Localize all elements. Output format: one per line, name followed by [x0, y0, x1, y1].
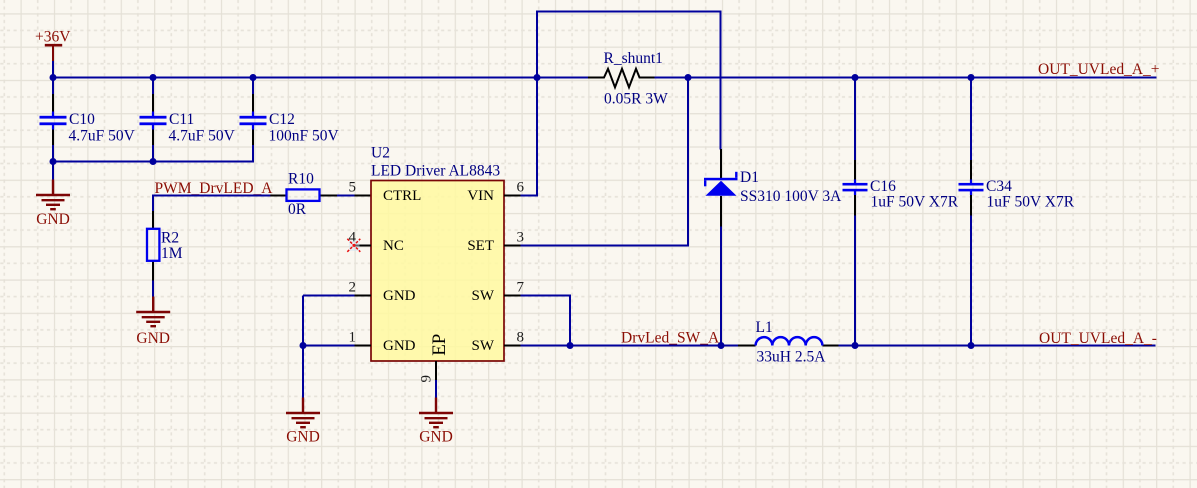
wire VIN pin to riser [521, 195, 539, 197]
wire VIN riser x537 [536, 11, 538, 196]
pin 4 NC [355, 245, 371, 247]
wire pin7 to jog [521, 295, 572, 297]
svg-text:GND: GND [286, 429, 320, 446]
svg-text:SW: SW [472, 338, 495, 354]
svg-text:C10: C10 [69, 111, 95, 128]
junction rail at SET riser [685, 74, 692, 81]
junction bottom bus at C11 [150, 158, 157, 165]
wire top rail right of R_shunt1 [654, 77, 1157, 79]
svg-text:R_shunt1: R_shunt1 [604, 50, 663, 67]
svg-text:D1: D1 [740, 169, 759, 186]
junction rail at C12 [250, 74, 257, 81]
wire C34 to SW line [970, 215, 972, 346]
svg-text:VIN: VIN [467, 188, 494, 204]
junction pins 1-2 riser [300, 342, 307, 349]
svg-text:SS310 100V 3A: SS310 100V 3A [740, 188, 842, 205]
svg-text:C34: C34 [986, 178, 1012, 195]
wire C12 to bottom bus [252, 144, 254, 163]
svg-text:+36V: +36V [35, 29, 71, 46]
svg-text:GND: GND [383, 338, 416, 354]
svg-text:1uF 50V X7R: 1uF 50V X7R [871, 194, 959, 211]
power +36V symbol [45, 45, 62, 62]
ground GND below EP [419, 398, 453, 428]
svg-text:C16: C16 [870, 178, 896, 195]
svg-text:9: 9 [419, 375, 435, 383]
wire C10 to bottom bus [52, 144, 54, 162]
svg-text:C11: C11 [169, 111, 194, 128]
pin 2 GND [303, 295, 356, 297]
wire SW line [521, 345, 739, 347]
wire GND pins riser x303 [302, 296, 304, 399]
svg-text:7: 7 [517, 279, 525, 295]
svg-text:L1: L1 [756, 319, 773, 336]
wire PWM_DrvLED_A horizontal [153, 195, 271, 197]
junction rail at VIN riser [534, 74, 541, 81]
svg-text:U2: U2 [371, 145, 390, 162]
pin 3 SET [504, 245, 522, 247]
junction rail at C34 [968, 74, 975, 81]
svg-text:SW: SW [472, 288, 495, 304]
resistor R_shunt1 [588, 69, 655, 88]
svg-text:R10: R10 [288, 170, 314, 187]
svg-text:5: 5 [349, 179, 357, 195]
wire +36V down to rail [52, 61, 54, 79]
svg-text:8: 8 [517, 329, 525, 345]
svg-text:SET: SET [467, 238, 494, 254]
op-amp U2 body LED Driver AL8843 [371, 181, 504, 362]
pin 1 GND [303, 345, 356, 347]
svg-text:100nF 50V: 100nF 50V [269, 128, 340, 145]
junction pin7-pin8 [567, 342, 574, 349]
svg-text:33uH 2.5A: 33uH 2.5A [757, 348, 827, 365]
wire pin7 jog down [569, 295, 571, 346]
wire C16 to SW line [854, 215, 856, 346]
svg-text:2: 2 [349, 279, 357, 295]
wire R2 to ground [152, 281, 154, 299]
svg-text:GND: GND [419, 429, 453, 446]
junction rail at C16 [852, 74, 859, 81]
junction SW line at C34 [968, 342, 975, 349]
capacitor C10 [40, 94, 67, 145]
ground GND below pins 1-2 [286, 398, 320, 428]
ground GND below C10 [36, 180, 70, 210]
wire C11 to bottom bus [152, 144, 154, 162]
svg-text:1M: 1M [161, 245, 183, 262]
svg-text:NC: NC [383, 238, 404, 254]
svg-text:LED Driver AL8843: LED Driver AL8843 [371, 162, 500, 179]
wire top loop right vertical down to D1 [720, 11, 722, 150]
resistor R2 [147, 211, 159, 281]
svg-text:GND: GND [36, 211, 70, 228]
wire D1 anode down to SW line [720, 227, 722, 347]
svg-text:CTRL: CTRL [383, 188, 421, 204]
pin 7 SW [504, 295, 522, 297]
inductor L1 [738, 337, 839, 345]
svg-text:1: 1 [349, 329, 357, 345]
resistor R10 [270, 189, 371, 201]
wire SET to rail [521, 245, 689, 247]
diode D1 [704, 149, 738, 227]
wire bottom cap bus [52, 161, 254, 163]
junction rail at +36V [50, 74, 57, 81]
svg-text:3: 3 [517, 229, 525, 245]
svg-text:GND: GND [383, 288, 416, 304]
pin 6 VIN [504, 195, 522, 197]
capacitor C12 [240, 94, 267, 145]
pin 8 SW [504, 345, 522, 347]
svg-text:GND: GND [136, 330, 170, 347]
wire rail to C12 [252, 78, 254, 96]
svg-text:4.7uF 50V: 4.7uF 50V [169, 128, 236, 145]
wire top rail left of R_shunt1 [52, 77, 589, 79]
svg-text:C12: C12 [269, 111, 295, 128]
wire rail to C10 [52, 78, 54, 96]
junction rail at C11 [150, 74, 157, 81]
junction D1 on SW line [718, 342, 725, 349]
wire top loop horizontal [536, 11, 722, 13]
capacitor C11 [140, 94, 167, 145]
svg-text:OUT_UVLed_A_-: OUT_UVLed_A_- [1039, 330, 1157, 347]
junction bottom bus at C10 [50, 158, 57, 165]
wire rail to C16 [854, 78, 856, 162]
svg-text:DrvLed_SW_A: DrvLed_SW_A [621, 330, 720, 347]
capacitor C16 [843, 160, 868, 216]
wire SW line right of L1 [839, 345, 1156, 347]
svg-text:0R: 0R [288, 201, 307, 218]
svg-text:OUT_UVLed_A_+: OUT_UVLed_A_+ [1038, 61, 1160, 78]
svg-text:R2: R2 [161, 229, 179, 246]
svg-text:0.05R 3W: 0.05R 3W [604, 91, 668, 108]
wire rail to C34 [970, 78, 972, 162]
svg-text:4.7uF 50V: 4.7uF 50V [69, 128, 136, 145]
ground GND below R2 [136, 297, 170, 327]
svg-text:PWM_DrvLED_A: PWM_DrvLED_A [155, 180, 274, 197]
junction SW line at C16 [852, 342, 859, 349]
svg-text:1uF 50V X7R: 1uF 50V X7R [987, 194, 1075, 211]
svg-text:6: 6 [517, 179, 525, 195]
wire PWM corner down to R2 [152, 195, 154, 212]
no-connect X on pin 4 [349, 241, 360, 252]
capacitor C34 [959, 160, 984, 216]
wire rail to C11 [152, 78, 154, 96]
wire EP to ground [435, 380, 437, 398]
wire bus down to ground stem [52, 162, 54, 181]
svg-text:EP: EP [429, 334, 450, 356]
